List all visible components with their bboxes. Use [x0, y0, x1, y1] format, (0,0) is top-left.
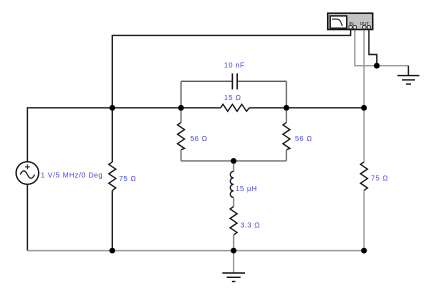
svg-text:3.3 Ω: 3.3 Ω — [240, 221, 260, 230]
wire right column node D to R6 — [363, 108, 365, 162]
resistor R2 15 ohm horizontal zigzag — [221, 104, 250, 111]
wire Bode OUT- jog to ground node — [369, 29, 377, 65]
node D junction dot — [361, 105, 367, 111]
wire mid bus left segment node A to node B — [112, 107, 220, 109]
node E junction dot bridge center — [231, 158, 237, 164]
resistor R1 75 ohm left zigzag — [109, 162, 116, 191]
wire left column upper lead R1 — [111, 108, 113, 162]
resistor R3 56 ohm left zigzag — [178, 123, 185, 150]
wire left column lower lead R1 — [111, 191, 113, 251]
node B junction dot — [178, 105, 184, 111]
svg-text:75 Ω: 75 Ω — [119, 174, 136, 183]
wire capacitor left lead — [181, 80, 232, 82]
wire bottom ground rail — [27, 250, 364, 252]
svg-text:15 μH: 15 μH — [236, 184, 258, 193]
svg-text:56 Ω: 56 Ω — [190, 134, 207, 143]
AC source V1 — [16, 162, 39, 185]
wire top run from node A up and across to Bode IN+ — [112, 29, 350, 108]
ground bottom symbol — [222, 273, 245, 282]
wire right column R6 to bottom rail — [363, 191, 365, 251]
wire 3.3 ohm bottom lead — [233, 235, 235, 251]
node I junction dot instrument ground — [374, 63, 380, 69]
wire bridge bottom rail — [181, 160, 286, 162]
svg-text:75 Ω: 75 Ω — [371, 174, 388, 183]
node F junction dot bottom left — [109, 248, 115, 254]
wire ground node to right ground — [377, 65, 409, 67]
ground right symbol — [397, 76, 419, 85]
wire capacitor right lead — [238, 80, 287, 82]
node A junction dot — [109, 105, 115, 111]
svg-text:10 nF: 10 nF — [224, 60, 245, 69]
wire source bottom lead down to bottom rail — [26, 184, 28, 250]
node G junction dot bottom center — [231, 248, 237, 254]
wire inductor top lead — [233, 161, 235, 172]
inductor L1 15 uH coil — [230, 171, 233, 197]
resistor R6 75 ohm right zigzag — [361, 162, 368, 191]
svg-text:IN: IN — [349, 21, 353, 26]
wire 56 ohm left lower lead — [180, 150, 182, 161]
wire 56 ohm right upper lead — [285, 108, 287, 123]
resistor R4 56 ohm right zigzag — [283, 123, 290, 150]
svg-text:1 V/5 MHz/0 Deg: 1 V/5 MHz/0 Deg — [41, 171, 103, 180]
wire bottom ground stub — [233, 251, 235, 273]
wire Bode IN- down and right to ground node — [355, 29, 377, 65]
wire capacitor branch right riser — [285, 81, 287, 108]
wire capacitor branch left riser — [180, 81, 182, 108]
svg-text:15 Ω: 15 Ω — [224, 93, 241, 102]
wire 56 ohm right lower lead — [285, 150, 287, 161]
wire inductor to resistor lead — [233, 197, 235, 206]
svg-text:56 Ω: 56 Ω — [295, 134, 312, 143]
wire 56 ohm left upper lead — [180, 108, 182, 123]
wire source top lead up to mid bus — [27, 108, 112, 162]
node H junction dot bottom right — [361, 248, 367, 254]
wire mid bus right segment node C to node D — [249, 107, 364, 109]
wire right column from OUT+ down to node D — [363, 29, 365, 108]
Bode plotter U1 — [328, 13, 373, 29]
wire right ground stub — [407, 66, 409, 76]
node C junction dot — [284, 105, 290, 111]
capacitor C1 10 nF plates — [232, 73, 237, 89]
resistor R5 3.3 ohm zigzag — [230, 207, 237, 235]
